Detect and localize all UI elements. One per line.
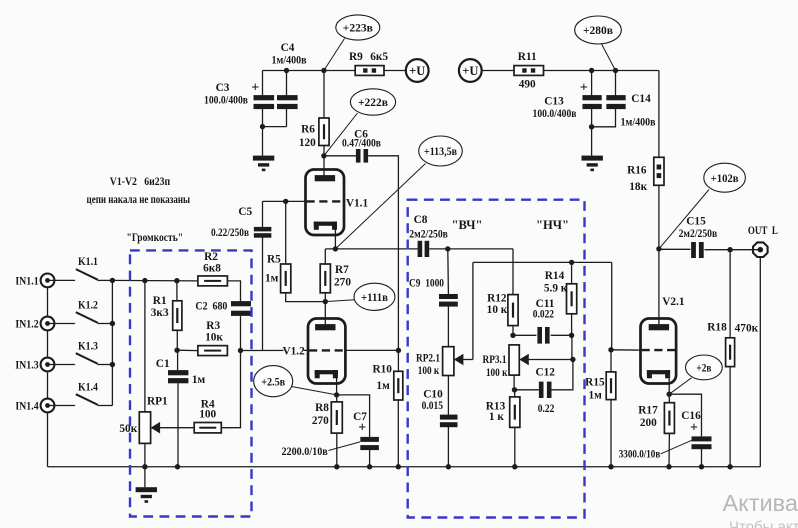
svg-text:+: + [358, 421, 366, 436]
svg-text:2200.0/10в: 2200.0/10в [281, 446, 327, 458]
svg-text:270: 270 [334, 276, 351, 288]
svg-text:3к3: 3к3 [151, 307, 169, 319]
svg-text:10к: 10к [205, 331, 223, 343]
svg-text:V1-V2 6и23п: V1-V2 6и23п [110, 176, 171, 188]
svg-text:RP2.1: RP2.1 [416, 353, 440, 365]
svg-text:"ВЧ": "ВЧ" [452, 218, 483, 232]
svg-text:2м2/250в: 2м2/250в [409, 229, 448, 241]
svg-text:120: 120 [299, 137, 316, 149]
svg-text:100.0/400в: 100.0/400в [204, 95, 248, 107]
svg-text:R2: R2 [204, 251, 218, 263]
svg-text:1м: 1м [376, 380, 390, 392]
svg-text:18к: 18к [629, 181, 647, 193]
svg-text:V1.2: V1.2 [282, 345, 305, 357]
svg-text:R16: R16 [627, 164, 647, 176]
svg-text:K1.1: K1.1 [78, 256, 98, 268]
svg-text:490: 490 [519, 79, 536, 91]
svg-text:2м2/250в: 2м2/250в [679, 228, 718, 240]
svg-text:R10: R10 [372, 363, 392, 375]
svg-text:+U: +U [462, 64, 478, 78]
svg-text:0.22: 0.22 [538, 403, 555, 415]
svg-text:+222в: +222в [358, 96, 388, 109]
svg-text:+: + [690, 421, 698, 436]
svg-text:IN1.2: IN1.2 [15, 319, 39, 331]
svg-text:C9 1000: C9 1000 [409, 277, 444, 289]
svg-text:C15: C15 [686, 216, 706, 228]
svg-text:IN1.3: IN1.3 [15, 360, 39, 372]
svg-text:C12: C12 [535, 366, 555, 378]
svg-text:100.0/400в: 100.0/400в [533, 108, 577, 120]
svg-text:+111в: +111в [361, 291, 388, 304]
svg-text:RP1: RP1 [147, 395, 168, 407]
svg-text:0.015: 0.015 [422, 400, 444, 412]
svg-text:R12: R12 [487, 293, 507, 305]
svg-text:270: 270 [312, 415, 329, 427]
svg-text:IN1.1: IN1.1 [15, 276, 39, 288]
svg-text:+2в: +2в [696, 362, 711, 375]
svg-text:+: + [251, 80, 259, 95]
svg-text:R1: R1 [153, 295, 167, 307]
svg-text:RP3.1: RP3.1 [483, 354, 507, 366]
svg-text:IN1.4: IN1.4 [15, 401, 39, 413]
svg-text:1м: 1м [589, 389, 603, 401]
svg-text:C4: C4 [281, 42, 295, 54]
svg-text:R6: R6 [301, 124, 315, 136]
svg-text:100 к: 100 к [418, 365, 440, 377]
svg-text:C13: C13 [544, 95, 564, 107]
svg-text:R8: R8 [315, 402, 329, 414]
svg-text:100: 100 [199, 409, 216, 421]
svg-text:R3: R3 [206, 320, 220, 332]
svg-text:1 к: 1 к [489, 411, 504, 423]
svg-text:0.022: 0.022 [533, 309, 554, 321]
svg-text:K1.2: K1.2 [78, 299, 98, 311]
svg-text:C1: C1 [156, 358, 170, 370]
svg-text:K1.3: K1.3 [78, 340, 98, 352]
svg-text:1м/400в: 1м/400в [272, 55, 307, 67]
svg-text:6к5: 6к5 [370, 51, 388, 63]
svg-text:0.47/400в: 0.47/400в [342, 137, 381, 149]
svg-text:C2 680: C2 680 [195, 300, 227, 312]
svg-text:10 к: 10 к [487, 304, 508, 316]
svg-text:100 к: 100 к [486, 367, 508, 379]
svg-text:C8: C8 [414, 214, 428, 226]
svg-text:50к: 50к [119, 423, 137, 435]
svg-text:R18: R18 [707, 321, 727, 333]
svg-text:Активац: Активац [723, 490, 798, 516]
svg-text:200: 200 [640, 417, 657, 429]
svg-text:"НЧ": "НЧ" [536, 218, 569, 232]
svg-text:R15: R15 [585, 376, 605, 388]
svg-text:V1.1: V1.1 [346, 197, 369, 209]
svg-text:6к8: 6к8 [203, 263, 221, 275]
svg-text:+: + [580, 80, 588, 95]
svg-text:470к: 470к [735, 323, 759, 335]
svg-text:OUT L: OUT L [748, 224, 778, 237]
svg-text:R14: R14 [545, 270, 565, 282]
svg-text:Чтобы акти: Чтобы акти [729, 519, 798, 528]
svg-text:1м/400в: 1м/400в [621, 116, 656, 128]
svg-text:3300.0/10в: 3300.0/10в [619, 448, 661, 460]
svg-text:R11: R11 [518, 51, 537, 63]
svg-text:C3: C3 [216, 82, 230, 94]
svg-text:C10: C10 [423, 389, 443, 401]
svg-text:+U: +U [409, 64, 425, 78]
svg-text:5.9 к: 5.9 к [544, 283, 568, 295]
svg-text:V2.1: V2.1 [662, 296, 685, 308]
svg-text:C14: C14 [631, 93, 651, 105]
svg-text:+113,5в: +113,5в [424, 145, 457, 158]
svg-text:+2.5в: +2.5в [261, 375, 285, 388]
svg-text:1м: 1м [192, 374, 206, 386]
svg-text:R17: R17 [638, 404, 658, 416]
svg-text:R7: R7 [335, 264, 349, 276]
svg-text:цепи накала не показаны: цепи накала не показаны [87, 194, 191, 206]
svg-text:"Громкость": "Громкость" [127, 230, 184, 244]
svg-text:0.22/250в: 0.22/250в [211, 227, 249, 239]
svg-text:R5: R5 [267, 253, 281, 265]
svg-text:+102в: +102в [711, 172, 739, 185]
svg-text:1м: 1м [265, 272, 279, 284]
svg-text:+280в: +280в [583, 24, 613, 37]
svg-text:K1.4: K1.4 [78, 381, 98, 393]
svg-text:R9: R9 [349, 51, 363, 63]
svg-text:C5: C5 [238, 206, 252, 218]
svg-text:+223в: +223в [343, 22, 373, 35]
